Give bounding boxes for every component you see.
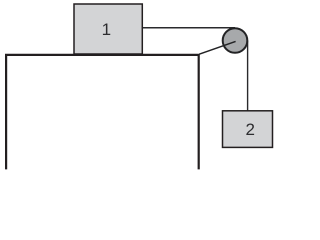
block 2 (hanging mass)	[223, 111, 273, 148]
wire: string from block 1 to pulley top	[142, 27, 235, 29]
svg-text:2: 2	[245, 120, 254, 139]
wire: string from pulley down to block 2	[247, 41, 249, 112]
table	[6, 55, 199, 169]
block 1 (mass on table)	[74, 4, 142, 54]
pulley support arm from table corner to pulley center	[199, 41, 235, 54]
svg-text:1: 1	[102, 20, 111, 39]
pulley P (gray circle)	[223, 28, 248, 53]
